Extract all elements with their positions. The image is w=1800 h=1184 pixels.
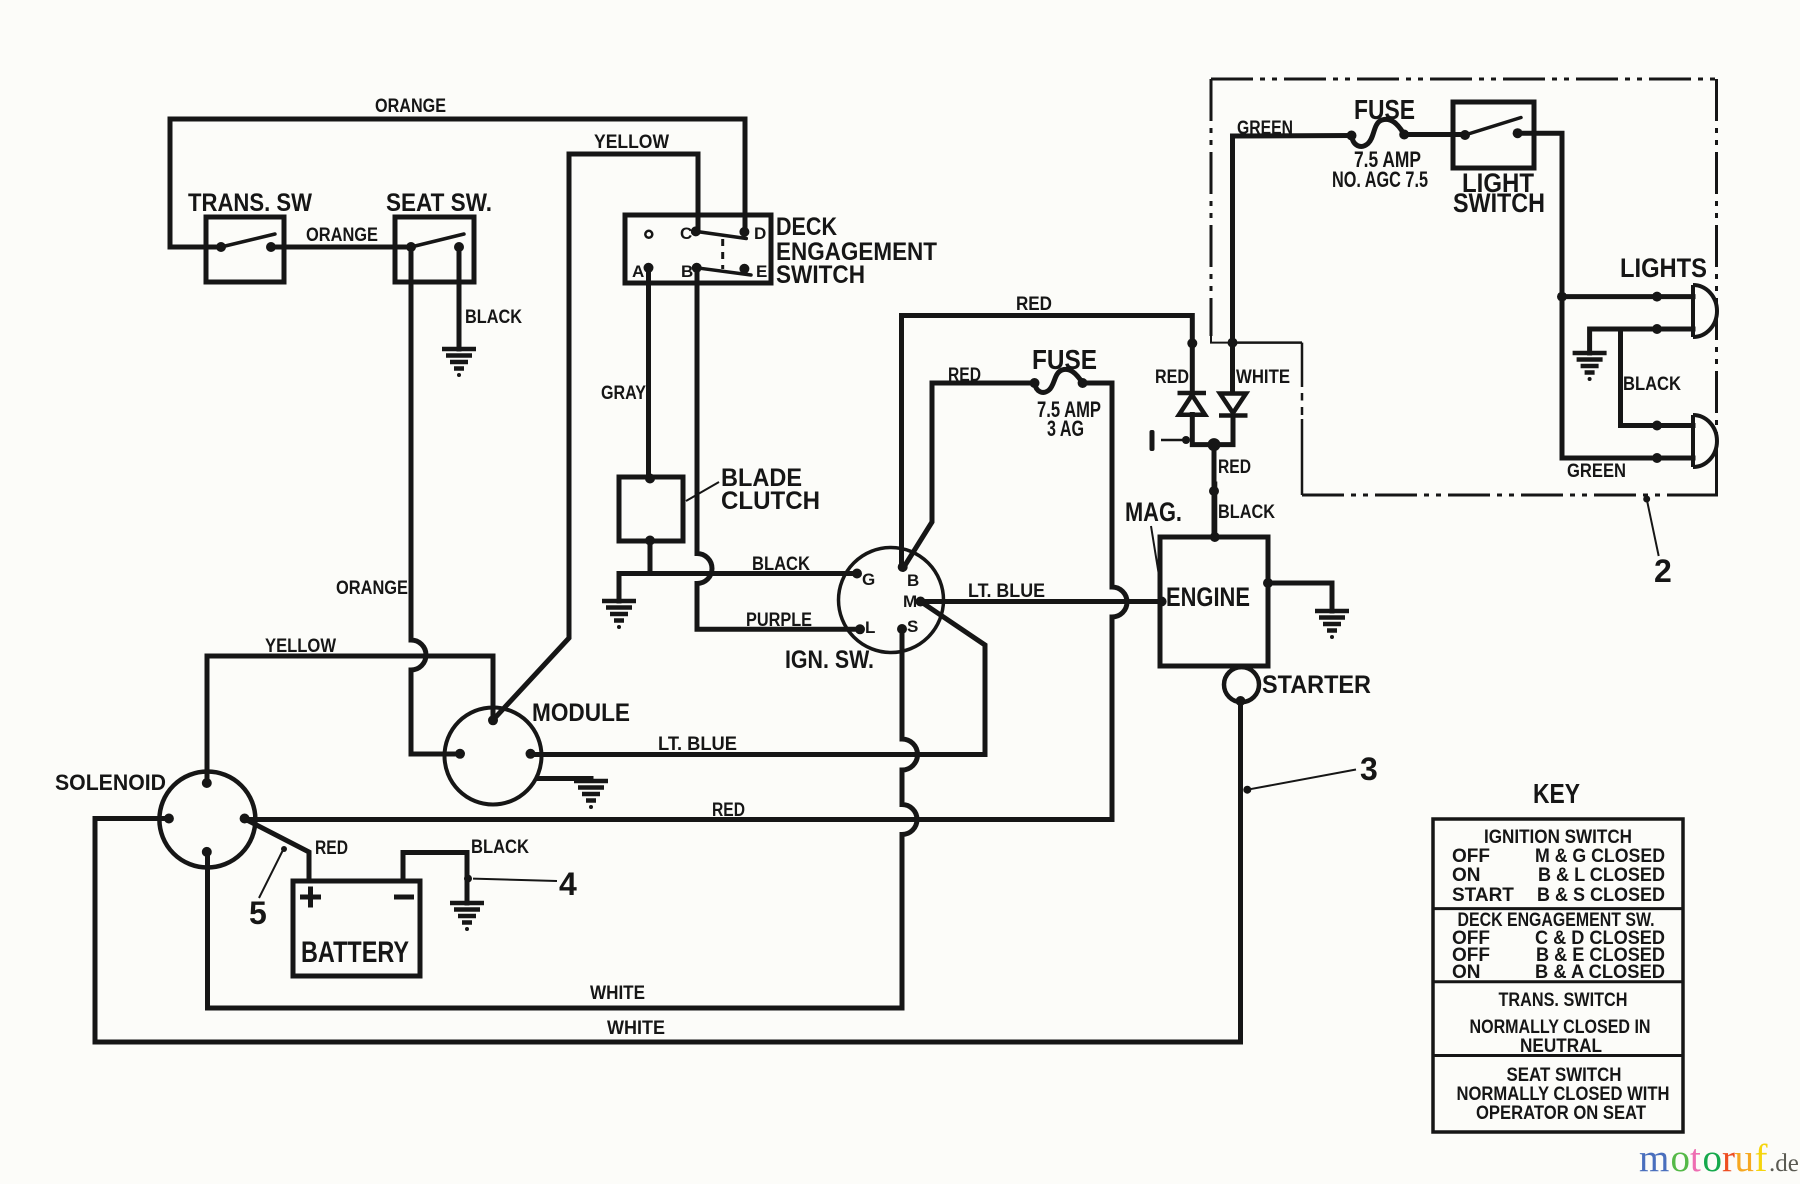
svg-text:B & A CLOSED: B & A CLOSED — [1535, 962, 1665, 983]
svg-text:FUSE: FUSE — [1354, 94, 1415, 125]
svg-text:ON: ON — [1452, 962, 1481, 983]
svg-text:OFF: OFF — [1452, 846, 1490, 867]
svg-text:YELLOW: YELLOW — [265, 636, 336, 657]
svg-text:NEUTRAL: NEUTRAL — [1520, 1036, 1602, 1057]
svg-text:SWITCH: SWITCH — [776, 261, 865, 289]
svg-text:B: B — [907, 571, 919, 590]
svg-text:BLACK: BLACK — [752, 554, 810, 575]
svg-text:SEAT SWITCH: SEAT SWITCH — [1507, 1065, 1622, 1086]
svg-text:t: t — [1690, 1137, 1701, 1180]
svg-text:L: L — [865, 618, 875, 637]
svg-text:BLACK: BLACK — [471, 837, 529, 858]
svg-text:B & S CLOSED: B & S CLOSED — [1537, 885, 1665, 906]
svg-text:WHITE: WHITE — [607, 1018, 665, 1039]
svg-text:.de: .de — [1769, 1150, 1799, 1177]
svg-text:RED: RED — [1218, 457, 1251, 478]
svg-text:M: M — [903, 592, 917, 611]
svg-text:IGNITION SWITCH: IGNITION SWITCH — [1484, 827, 1632, 848]
svg-text:3 AG: 3 AG — [1047, 416, 1084, 441]
svg-text:WHITE: WHITE — [1236, 367, 1290, 388]
svg-text:TRANS. SWITCH: TRANS. SWITCH — [1499, 990, 1628, 1011]
svg-text:SEAT SW.: SEAT SW. — [386, 189, 492, 217]
svg-text:MAG.: MAG. — [1125, 497, 1182, 527]
svg-text:2: 2 — [1654, 553, 1672, 589]
svg-text:u: u — [1735, 1137, 1755, 1180]
svg-text:NORMALLY CLOSED IN: NORMALLY CLOSED IN — [1470, 1017, 1651, 1038]
svg-text:ON: ON — [1452, 865, 1481, 886]
svg-text:BATTERY: BATTERY — [301, 936, 409, 969]
svg-text:FUSE: FUSE — [1032, 344, 1097, 375]
svg-text:RED: RED — [1016, 294, 1052, 315]
svg-text:ENGINE: ENGINE — [1166, 582, 1250, 612]
svg-text:ORANGE: ORANGE — [336, 578, 408, 599]
svg-text:o: o — [1703, 1137, 1723, 1180]
svg-text:SWITCH: SWITCH — [1453, 188, 1545, 218]
svg-text:M & G CLOSED: M & G CLOSED — [1535, 846, 1665, 867]
svg-text:5: 5 — [249, 895, 267, 931]
svg-text:RED: RED — [1155, 367, 1189, 388]
svg-text:IGN. SW.: IGN. SW. — [785, 646, 874, 674]
svg-text:TRANS. SW: TRANS. SW — [188, 189, 312, 217]
svg-text:B & L CLOSED: B & L CLOSED — [1538, 865, 1665, 886]
svg-text:DECK: DECK — [776, 213, 837, 241]
svg-text:CLUTCH: CLUTCH — [721, 487, 820, 515]
svg-text:RED: RED — [948, 365, 981, 386]
svg-text:GRAY: GRAY — [601, 383, 646, 404]
svg-text:D: D — [754, 224, 766, 243]
svg-text:S: S — [907, 617, 918, 636]
svg-text:ORANGE: ORANGE — [306, 225, 378, 246]
svg-text:GREEN: GREEN — [1567, 461, 1626, 482]
svg-text:3: 3 — [1360, 751, 1378, 787]
svg-text:o: o — [1671, 1137, 1691, 1180]
svg-text:BLACK: BLACK — [1218, 502, 1275, 523]
svg-text:B: B — [681, 262, 693, 281]
svg-text:YELLOW: YELLOW — [594, 132, 669, 153]
svg-text:NORMALLY CLOSED WITH: NORMALLY CLOSED WITH — [1457, 1084, 1670, 1105]
svg-text:GREEN: GREEN — [1237, 118, 1293, 139]
svg-text:A: A — [632, 262, 644, 281]
svg-text:STARTER: STARTER — [1262, 671, 1371, 699]
svg-text:BLACK: BLACK — [465, 307, 522, 328]
svg-text:PURPLE: PURPLE — [746, 610, 812, 631]
svg-text:BLACK: BLACK — [1623, 374, 1681, 395]
svg-text:m: m — [1639, 1137, 1669, 1180]
svg-text:OPERATOR ON SEAT: OPERATOR ON SEAT — [1476, 1103, 1646, 1124]
svg-text:RED: RED — [315, 838, 348, 859]
svg-text:ORANGE: ORANGE — [375, 96, 446, 117]
svg-text:f: f — [1755, 1137, 1768, 1180]
svg-text:4: 4 — [559, 866, 577, 902]
svg-text:MODULE: MODULE — [532, 699, 630, 727]
svg-text:E: E — [756, 262, 767, 281]
svg-text:KEY: KEY — [1533, 778, 1580, 809]
svg-text:r: r — [1722, 1137, 1735, 1180]
svg-text:SOLENOID: SOLENOID — [55, 770, 166, 795]
svg-text:LT. BLUE: LT. BLUE — [658, 734, 737, 755]
svg-text:C: C — [680, 224, 692, 243]
svg-text:G: G — [862, 570, 875, 589]
svg-text:WHITE: WHITE — [590, 983, 645, 1004]
svg-text:LT. BLUE: LT. BLUE — [968, 581, 1045, 602]
svg-text:RED: RED — [712, 800, 745, 821]
svg-text:START: START — [1452, 885, 1514, 906]
svg-text:LIGHTS: LIGHTS — [1620, 253, 1707, 283]
svg-text:NO. AGC 7.5: NO. AGC 7.5 — [1332, 167, 1428, 192]
